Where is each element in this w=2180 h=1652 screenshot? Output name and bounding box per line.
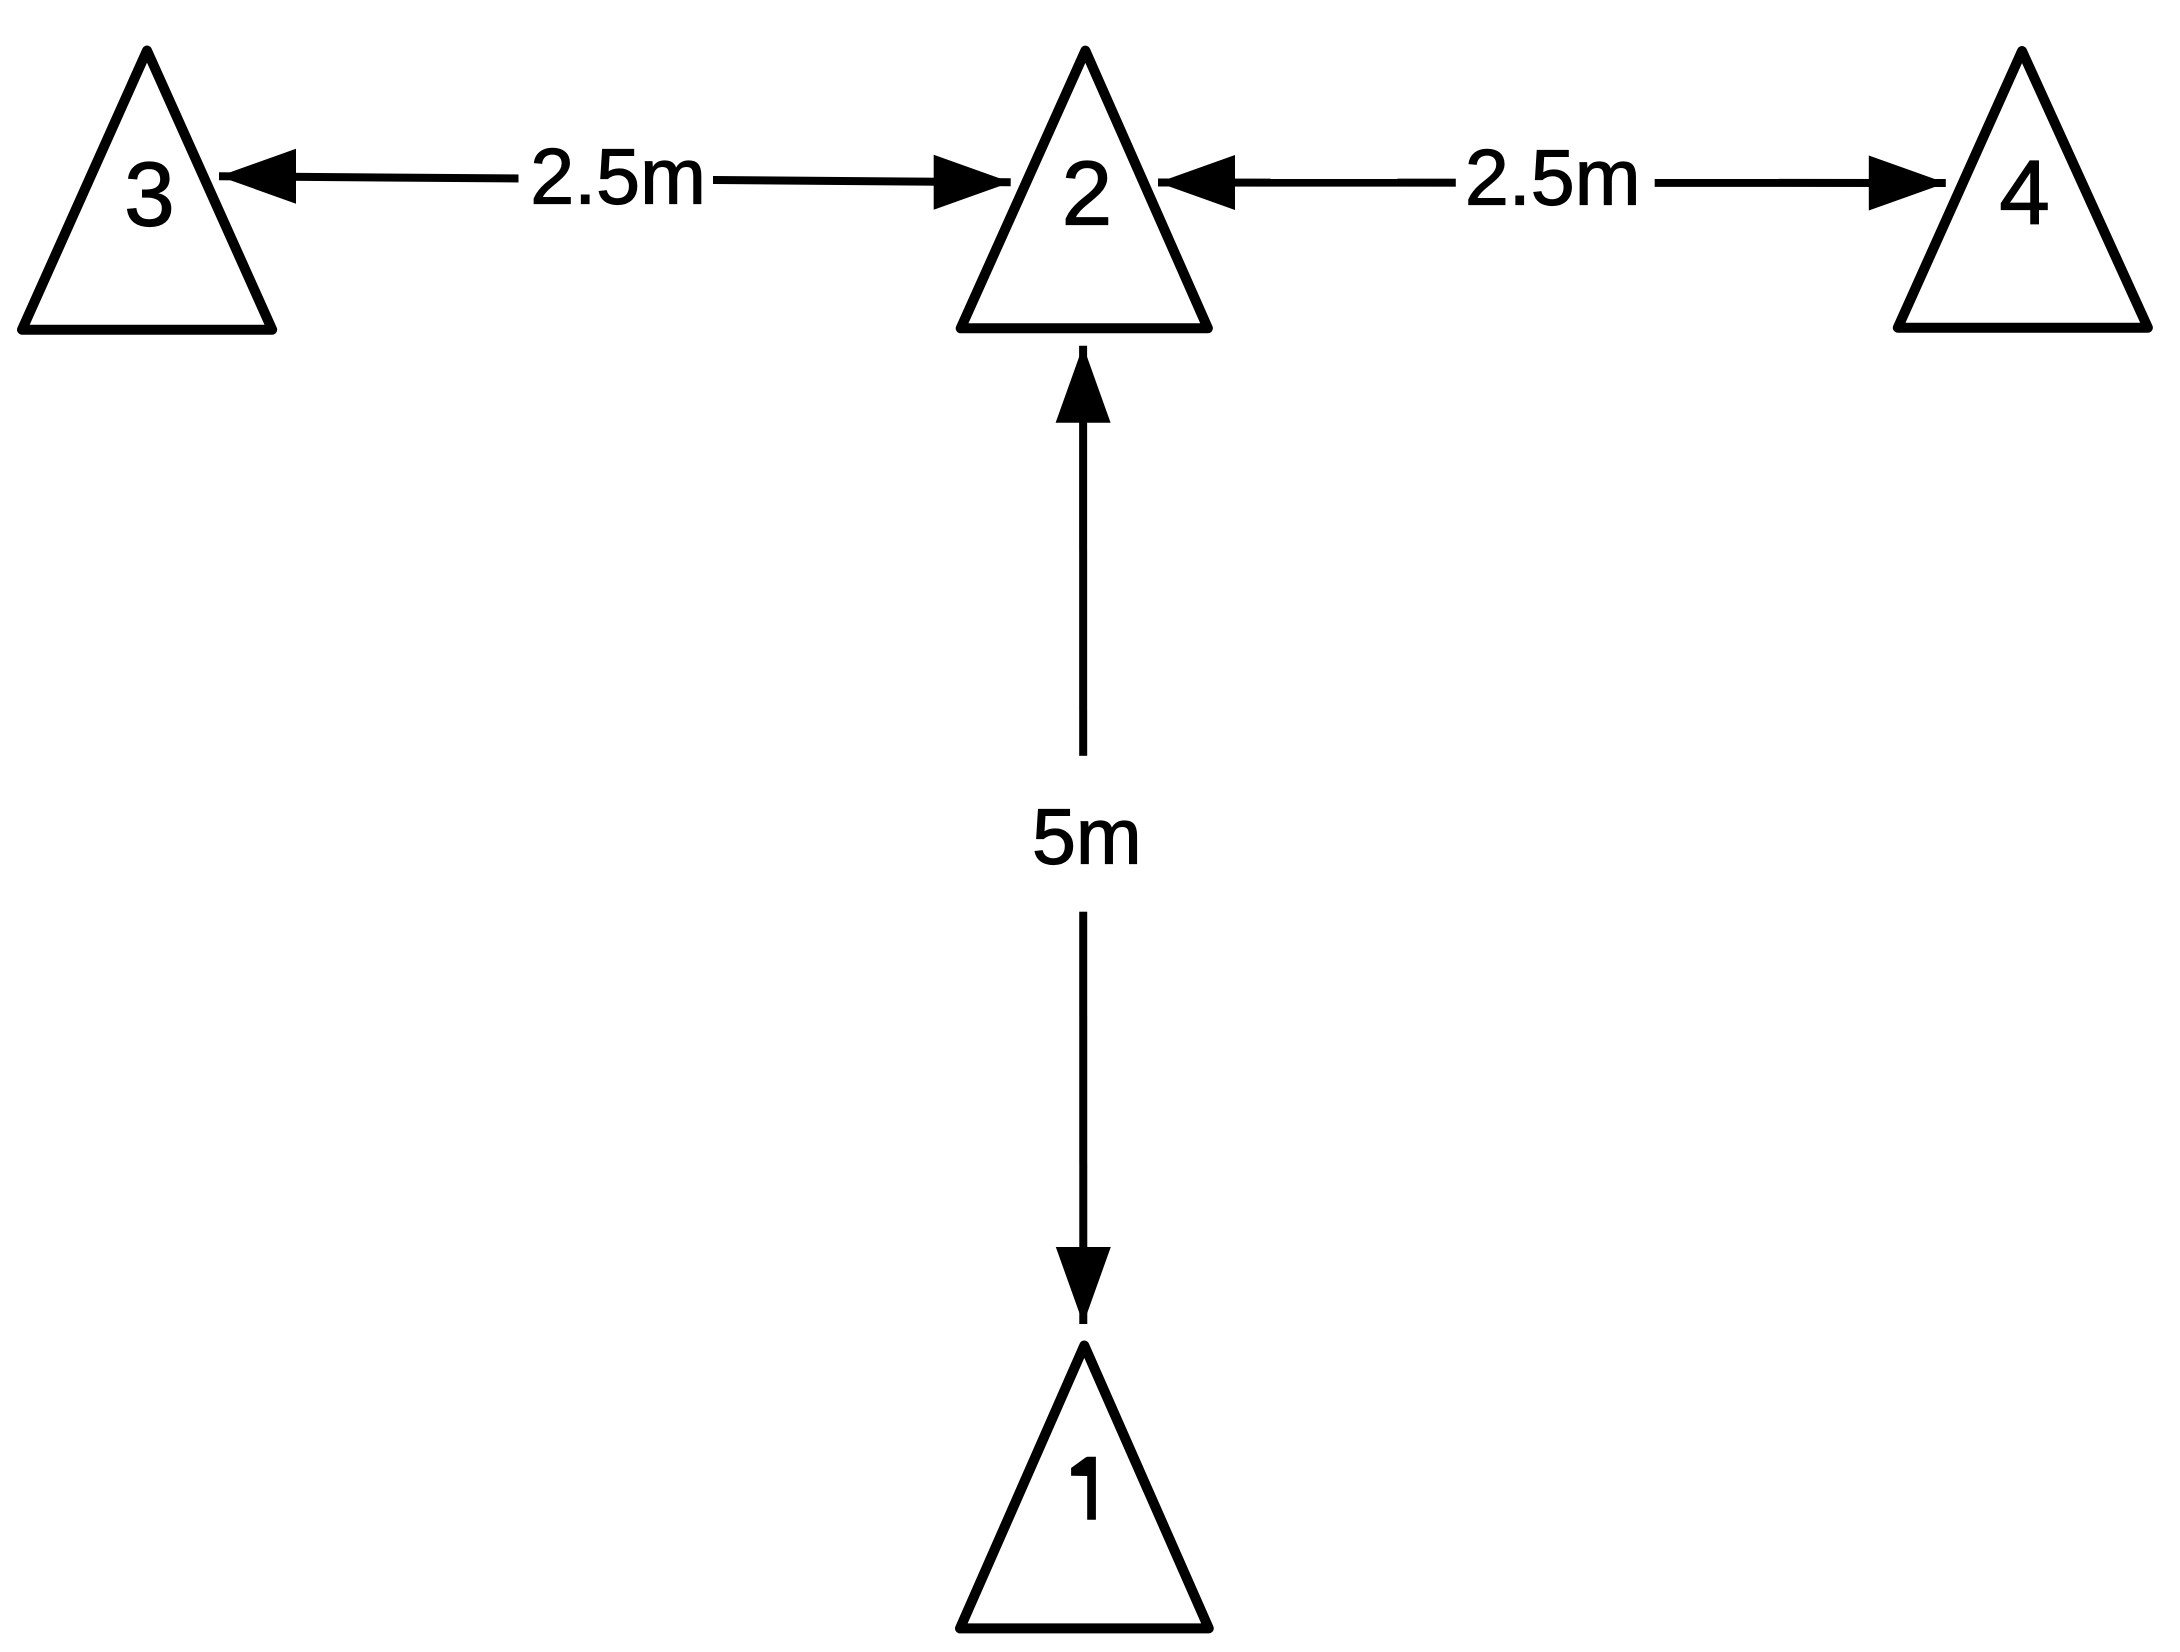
svg-text:2.5m: 2.5m	[530, 131, 706, 220]
wire: vertical arrow shaft 2-to-1	[1079, 346, 1087, 1324]
svg-text:2.5m: 2.5m	[1465, 132, 1641, 221]
cone marker 3 (triangle)	[22, 51, 272, 330]
svg-text:2: 2	[1062, 144, 1113, 245]
gap for label 2.5m left	[519, 132, 714, 220]
gap for label 2.5m right	[1456, 132, 1655, 225]
arrowhead right of arrow 3-2	[934, 155, 1011, 210]
arrowhead left of arrow 2-4	[1158, 155, 1235, 210]
cone marker 2 (triangle)	[961, 51, 1208, 329]
label 1	[1071, 1457, 1096, 1520]
arrowhead bottom of arrow 2-1	[1056, 1247, 1111, 1324]
svg-text:5m: 5m	[1032, 792, 1142, 881]
cone marker 4 (triangle)	[1898, 51, 2148, 328]
wire: horizontal arrow shaft 2-to-4	[1158, 179, 1946, 188]
svg-text:3: 3	[124, 145, 175, 246]
arrowhead top of arrow 2-1	[1056, 346, 1111, 423]
arrowhead right of arrow 2-4	[1869, 156, 1946, 211]
gap for label 5m	[1040, 756, 1130, 912]
arrowhead left of arrow 3-2	[219, 149, 296, 204]
cone marker 1 (triangle)	[960, 1346, 1209, 1629]
svg-text:4: 4	[1999, 143, 2050, 244]
wire: horizontal arrow shaft 3-to-2	[219, 176, 1011, 182]
